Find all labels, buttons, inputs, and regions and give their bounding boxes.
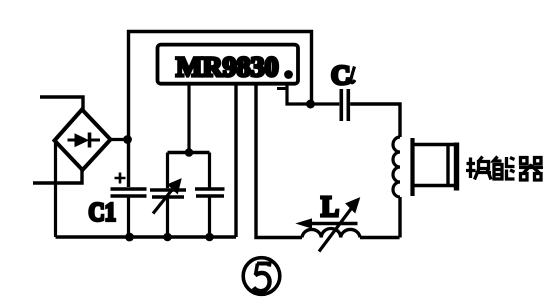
wire pin A of IC down to cap branch [187,84,190,153]
wire AC input top stub [40,97,83,110]
IC U1 MR9830 box [158,45,299,84]
wire AC input bottom stub [33,169,82,183]
node junction bridge/bus [123,135,132,144]
transducer symbol [413,138,460,196]
figure number circle 5 [243,258,280,295]
wire pin C of IC down and right (bottom of output loop) [256,84,302,238]
capacitor C (coupling) [341,89,348,121]
wire bottom right to coil [360,236,400,239]
wire left vertical from bridge left corner down [54,142,57,238]
variable capacitor plates [150,179,186,214]
inductor L1 (variable) [297,198,360,252]
node junction pin D / top loop [306,100,315,109]
svg-text:C1: C1 [89,198,117,227]
wire cap branch left vertical [166,153,169,238]
wire pin B of IC down to bus [234,84,237,238]
wire bottom ground bus [56,235,237,238]
wire cap branch right vertical [208,153,211,238]
wire top loop (bus up, across, down to pin D net) [129,32,312,188]
svg-text:L: L [321,191,339,223]
wire pin D of IC down and right [287,84,339,105]
fixed capacitor plates [195,189,225,196]
bridge rectifier [55,110,111,171]
wire cap C to coil [350,104,400,137]
wire bridge output to bus [111,138,129,141]
inductor coil (transformer winding) [393,137,400,197]
label 换能器 (transducer) hand-drawn glyphs [466,157,543,181]
svg-text:MR9830: MR9830 [176,52,279,83]
glyph 换 [466,157,491,180]
wire coil bottom to bus [398,197,401,238]
node cap branch left on bus [163,233,172,242]
glyph 能 [494,157,515,180]
pin 1 tick [277,87,286,90]
node pin-1 dot inside IC [284,70,293,79]
node cap branch right on bus [205,233,214,242]
svg-text:C: C [331,60,351,90]
glyph 器 [519,158,543,181]
node junction pin A / branch top [185,148,194,157]
node C1 on bus [125,233,134,242]
capacitor C1 [111,173,147,238]
wire cap branch top [168,151,210,154]
